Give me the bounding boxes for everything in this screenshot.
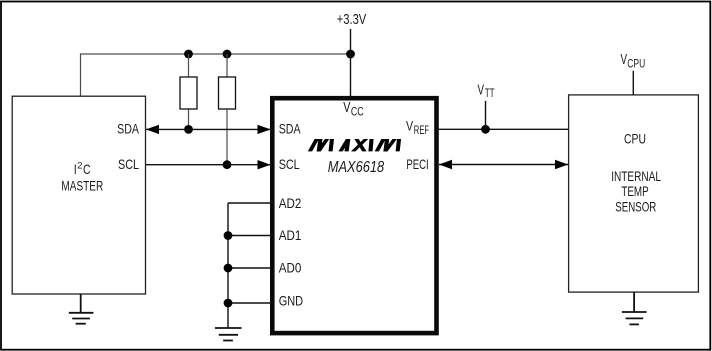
svg-text:AD1: AD1 <box>279 227 302 243</box>
svg-text:SCL: SCL <box>118 156 139 172</box>
svg-text:REF: REF <box>414 125 429 137</box>
svg-text:MASTER: MASTER <box>61 177 103 193</box>
svg-text:GND: GND <box>279 293 303 309</box>
svg-text:C: C <box>83 161 91 177</box>
wire VCPU stub <box>632 71 634 95</box>
node junction R2/SCL <box>223 160 232 169</box>
svg-text:SENSOR: SENSOR <box>615 199 656 215</box>
svg-text:INTERNAL: INTERNAL <box>611 168 661 184</box>
svg-text:SDA: SDA <box>117 121 139 137</box>
node VTT junction <box>481 125 490 134</box>
wire top bus from I2C master to +3.3V <box>81 54 351 96</box>
svg-text:V: V <box>478 82 485 98</box>
svg-text:CC: CC <box>351 105 364 119</box>
wire AD bus vertical <box>227 203 229 328</box>
svg-text:CPU: CPU <box>624 130 646 146</box>
wire VREF to CPU <box>439 128 569 130</box>
svg-text:SCL: SCL <box>279 156 300 172</box>
wire AD0 <box>228 267 272 269</box>
wire R1 leads <box>188 54 190 129</box>
wire PECI bus <box>439 164 568 166</box>
svg-text:AD0: AD0 <box>279 260 302 276</box>
node junction R2 top <box>223 50 232 59</box>
svg-text:V: V <box>621 52 628 68</box>
svg-text:TEMP: TEMP <box>621 183 648 199</box>
wire AD2 <box>228 202 272 204</box>
wire GND pin <box>228 302 272 304</box>
node junction R1/SDA <box>184 125 193 134</box>
wire SCL bus <box>146 164 271 166</box>
resistor R2 <box>219 77 236 109</box>
ground (AD bus) <box>215 328 242 341</box>
IC U1 MAX6618 box <box>272 98 436 333</box>
svg-text:+3.3V: +3.3V <box>337 11 367 28</box>
svg-text:MAX6618: MAX6618 <box>328 159 384 176</box>
svg-text:V: V <box>343 100 350 116</box>
wire VTT stub <box>485 101 487 130</box>
svg-text:AD2: AD2 <box>279 195 302 211</box>
svg-text:V: V <box>406 117 414 133</box>
svg-text:TT: TT <box>485 86 495 100</box>
wire +3.3V to VCC pin <box>350 29 352 96</box>
box I2C MASTER <box>12 96 145 294</box>
svg-text:SDA: SDA <box>279 121 301 137</box>
svg-text:CPU: CPU <box>627 56 645 70</box>
svg-text:PECI: PECI <box>406 156 428 172</box>
node junction R1 top <box>184 50 193 59</box>
logo MAXIM <box>308 139 400 151</box>
ground (CPU) <box>622 292 647 324</box>
resistor R1 <box>180 77 197 109</box>
wire AD1 <box>228 235 272 237</box>
box CPU internal temp sensor <box>569 95 699 292</box>
wire R2 leads <box>226 54 228 165</box>
svg-text:2: 2 <box>77 160 82 171</box>
ground (I2C master) <box>69 294 94 324</box>
node +3.3V junction <box>346 50 355 59</box>
wire SDA bus <box>146 128 271 130</box>
